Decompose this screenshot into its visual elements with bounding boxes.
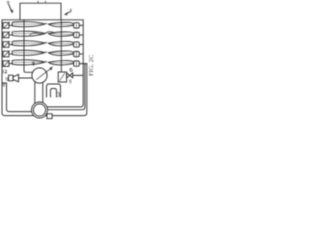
pump tab — [47, 114, 52, 119]
valve unit box U1 — [58, 72, 66, 82]
row 3 element E3b — [48, 41, 73, 45]
row 3 valve V3 — [3, 41, 13, 47]
gauge needle arrow — [37, 67, 53, 80]
label 12 — [3, 70, 6, 73]
label 5 — [70, 80, 72, 83]
row 5 valve V5 — [3, 60, 13, 66]
label 13 — [6, 77, 8, 80]
row 2 element E2a — [12, 31, 47, 36]
top supply line — [20, 3, 61, 20]
row 1 valve V1 — [3, 22, 13, 28]
row 5 element E5a — [12, 60, 47, 65]
valve bowtie — [67, 73, 70, 78]
pump inner ring — [33, 104, 45, 116]
gauge G1 — [32, 68, 47, 83]
label 3 — [58, 92, 60, 96]
transducer box T1 — [9, 75, 14, 81]
label 8 — [3, 83, 5, 86]
row 4 valve V4 — [3, 51, 13, 57]
row 2 bulb B2 — [74, 32, 84, 37]
row 4 element E4b — [48, 51, 73, 55]
row 2 element E2b — [48, 32, 73, 36]
right bus pipe inner — [47, 20, 83, 107]
leader arrow 2 — [7, 1, 13, 13]
pump P1 — [32, 102, 48, 118]
break squiggle — [30, 32, 55, 35]
right bus pipe outer — [48, 64, 85, 110]
row 5 element E5b — [48, 61, 73, 65]
leader arrow 4 — [64, 10, 71, 15]
duct line — [19, 77, 32, 79]
label 9 — [32, 62, 34, 66]
enclosure outline — [2, 20, 87, 116]
row 1 element E1b — [48, 22, 73, 26]
svg-text:FIG. 2C: FIG. 2C — [88, 55, 94, 76]
row 4 element E4a — [12, 50, 47, 55]
tick 1a — [37, 1, 39, 3]
trap pipe inner — [51, 89, 57, 98]
row 3 bulb B3 — [74, 42, 84, 47]
left rail pipe — [24, 20, 33, 73]
row 2 valve V2 — [3, 32, 13, 38]
left return pipe — [2, 83, 32, 112]
label 6 — [70, 68, 72, 71]
horn cone — [13, 74, 19, 81]
row 3 element E3a — [12, 41, 47, 46]
tick 1b — [45, 1, 47, 3]
pump feed pipe left — [34, 82, 36, 103]
right rail pipe — [60, 20, 62, 72]
row 4 bulb B4 — [74, 51, 84, 56]
pump feed pipe right — [42, 83, 44, 104]
row 5 bulb B5 — [74, 61, 87, 66]
row 1 bulb B1 — [74, 23, 84, 28]
trap pipe outer — [47, 84, 61, 97]
row 1 element E1a — [12, 22, 47, 27]
